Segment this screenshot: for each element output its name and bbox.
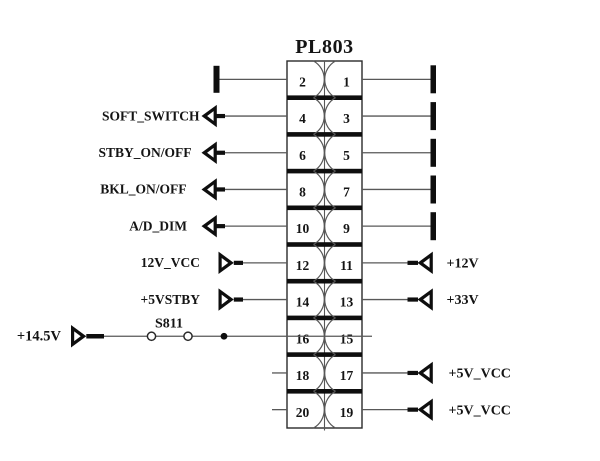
connector row divider 6: [287, 279, 362, 284]
pin 7 contact arc: [325, 171, 336, 208]
wire pin 11 to output arrow: [362, 262, 409, 264]
connector row divider 4: [287, 206, 362, 211]
svg-text:12V_VCC: 12V_VCC: [141, 255, 200, 270]
pin 6 contact arc: [314, 134, 325, 171]
svg-text:20: 20: [296, 405, 310, 420]
svg-text:5: 5: [343, 148, 350, 163]
pin 14 contact arc: [314, 281, 325, 318]
pin 16 contact arc: [314, 318, 325, 355]
arrow stub +5VSTBY: [234, 297, 243, 301]
svg-text:19: 19: [340, 405, 354, 420]
connector row divider 1: [287, 95, 362, 100]
arrow stub BKL_ON/OFF: [217, 187, 226, 191]
pin 20 contact arc: [314, 391, 325, 428]
svg-text:A/D_DIM: A/D_DIM: [129, 218, 187, 233]
svg-text:16: 16: [296, 331, 310, 346]
svg-text:12: 12: [296, 258, 310, 273]
wire SOFT_SWITCH to pin 4: [225, 115, 287, 117]
connector row divider 9: [287, 389, 362, 394]
terminator bar pin 9: [431, 212, 437, 240]
pin 19 contact arc: [325, 391, 336, 428]
pin 9 contact arc: [325, 208, 336, 245]
arrow stub +14.5V: [86, 334, 104, 338]
arrow stub +33V pin 13: [408, 297, 419, 301]
wire stub pin 18: [272, 372, 287, 374]
svg-text:+5VSTBY: +5VSTBY: [141, 292, 201, 307]
svg-text:+14.5V: +14.5V: [17, 328, 62, 344]
wire STBY_ON/OFF to pin 6: [225, 152, 287, 154]
wire pin 17 to output arrow: [362, 372, 409, 374]
output arrow +5V_VCC pin 17: [418, 362, 433, 384]
wire +14.5V through switch S811 to pin 16 and pin 15: [104, 335, 372, 337]
pin 1 contact arc: [325, 61, 336, 98]
wire 12V_VCC to pin 12: [243, 262, 287, 264]
terminator bar pin 3: [431, 102, 437, 130]
input arrow +5VSTBY: [219, 288, 234, 310]
svg-text:S811: S811: [155, 317, 183, 332]
wire pin 9 to right terminator: [362, 225, 431, 227]
input arrow +14.5V: [71, 325, 86, 347]
pin 4 contact arc: [314, 98, 325, 135]
wire stub pin 20: [272, 409, 287, 411]
wire pin 1 to right terminator: [362, 78, 431, 80]
wire pin 13 to output arrow: [362, 299, 409, 301]
svg-text:3: 3: [343, 111, 350, 126]
connector row divider 5: [287, 242, 362, 247]
svg-text:2: 2: [299, 74, 306, 89]
svg-text:8: 8: [299, 185, 306, 200]
svg-text:15: 15: [340, 331, 354, 346]
svg-text:1: 1: [343, 74, 350, 89]
connector center line: [324, 61, 326, 431]
wire +5VSTBY to pin 14: [243, 299, 287, 301]
output arrow +33V pin 13: [418, 288, 433, 310]
svg-text:+12V: +12V: [447, 257, 479, 272]
pin 15 contact arc: [325, 318, 336, 355]
wire BKL_ON/OFF to pin 8: [225, 188, 287, 190]
terminator bar pin 1: [431, 65, 437, 93]
input arrow 12V_VCC: [219, 252, 234, 274]
connector row divider 7: [287, 316, 362, 321]
terminator bar pin 7: [431, 176, 437, 204]
svg-text:+5V_VCC: +5V_VCC: [449, 367, 511, 382]
svg-text:PL803: PL803: [295, 36, 354, 58]
connector PL803 body outline: [287, 61, 362, 428]
svg-text:17: 17: [340, 368, 354, 383]
junction dot on +14.5V net: [221, 333, 228, 340]
arrow stub 12V_VCC: [234, 261, 243, 265]
connector row divider 3: [287, 169, 362, 174]
wire pin 3 to right terminator: [362, 115, 431, 117]
input arrow STBY_ON/OFF: [202, 142, 217, 164]
pin 3 contact arc: [325, 98, 336, 135]
pin 8 contact arc: [314, 171, 325, 208]
pin 11 contact arc: [325, 245, 336, 282]
pin 17 contact arc: [325, 355, 336, 392]
svg-text:7: 7: [343, 185, 350, 200]
arrow stub A/D_DIM: [217, 224, 226, 228]
input arrow BKL_ON/OFF: [202, 178, 217, 200]
wire pin 19 to output arrow: [362, 409, 409, 411]
pin 5 contact arc: [325, 134, 336, 171]
arrow stub +5V_VCC pin 17: [408, 371, 419, 375]
svg-text:10: 10: [296, 221, 310, 236]
wire pin 7 to right terminator: [362, 188, 431, 190]
svg-text:STBY_ON/OFF: STBY_ON/OFF: [98, 145, 191, 160]
svg-text:4: 4: [299, 111, 306, 126]
input arrow SOFT_SWITCH: [202, 105, 217, 127]
arrow stub +12V pin 11: [408, 261, 419, 265]
pin 2 contact arc: [314, 61, 325, 98]
svg-text:6: 6: [299, 148, 306, 163]
svg-text:+5V_VCC: +5V_VCC: [449, 403, 511, 418]
switch S811 contact circle right: [184, 332, 192, 340]
terminator bar pin 2: [214, 66, 220, 93]
output arrow +5V_VCC pin 19: [418, 398, 433, 420]
connector row divider 2: [287, 132, 362, 137]
wire A/D_DIM to pin 10: [225, 225, 287, 227]
pin 13 contact arc: [325, 281, 336, 318]
svg-text:+33V: +33V: [447, 293, 479, 308]
terminator bar pin 5: [431, 139, 437, 167]
pin 10 contact arc: [314, 208, 325, 245]
svg-text:SOFT_SWITCH: SOFT_SWITCH: [102, 108, 200, 123]
arrow stub SOFT_SWITCH: [217, 114, 226, 118]
switch S811 contact circle left: [147, 332, 155, 340]
output arrow +12V pin 11: [418, 252, 433, 274]
wire pin 2 to left terminator: [219, 78, 287, 80]
pin 18 contact arc: [314, 355, 325, 392]
wire pin 5 to right terminator: [362, 152, 431, 154]
svg-text:14: 14: [296, 295, 310, 310]
svg-text:11: 11: [340, 258, 353, 273]
arrow stub +5V_VCC pin 19: [408, 408, 419, 412]
svg-text:BKL_ON/OFF: BKL_ON/OFF: [100, 182, 186, 197]
input arrow A/D_DIM: [202, 215, 217, 237]
connector row divider 8: [287, 352, 362, 357]
arrow stub STBY_ON/OFF: [217, 151, 226, 155]
svg-text:9: 9: [343, 221, 350, 236]
svg-text:18: 18: [296, 368, 310, 383]
pin 12 contact arc: [314, 245, 325, 282]
svg-text:13: 13: [340, 295, 354, 310]
